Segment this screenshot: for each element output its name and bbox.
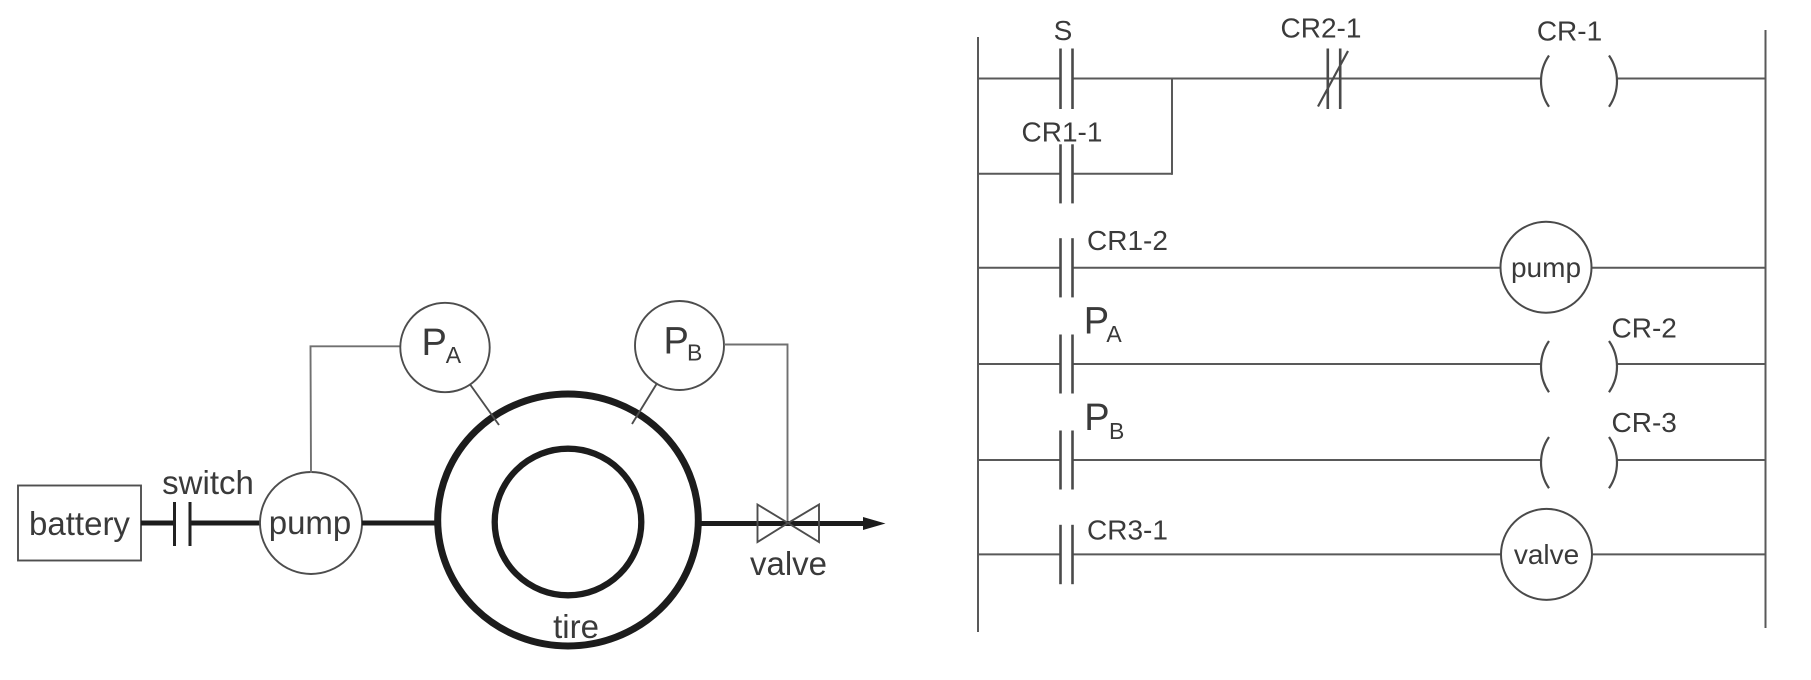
contact S (NO) [1054, 15, 1073, 109]
coil CR-2 [1541, 312, 1677, 392]
pump (motor) circle [260, 472, 362, 574]
pressure gauge PB [635, 301, 724, 390]
output valve (circle) [1501, 509, 1592, 600]
wire pump to gauge PA [311, 346, 402, 473]
output pump (circle) [1501, 222, 1592, 313]
wire switch to pump [192, 521, 262, 526]
arrowhead [863, 517, 886, 530]
contact CR2-1 (NC) [1281, 13, 1362, 110]
svg-text:P: P [1084, 301, 1109, 343]
svg-text:B: B [1109, 418, 1124, 444]
svg-text:B: B [687, 340, 702, 366]
coil CR-1 [1537, 16, 1617, 107]
svg-text:CR3-1: CR3-1 [1087, 515, 1168, 546]
valve V1 (bowtie) [750, 505, 827, 583]
svg-text:P: P [664, 321, 689, 363]
rung 3 wire segments [978, 363, 1060, 365]
tire outer circle [438, 394, 699, 646]
svg-text:A: A [446, 342, 462, 368]
svg-text:S: S [1054, 15, 1073, 46]
svg-text:valve: valve [1514, 539, 1579, 570]
svg-text:CR-1: CR-1 [1537, 16, 1602, 47]
wire PB to tire (diagonal) [632, 384, 657, 424]
contact CR3-1 (NO) [1061, 515, 1168, 585]
svg-text:CR-2: CR-2 [1612, 312, 1677, 343]
svg-text:tire: tire [553, 608, 599, 645]
svg-text:P: P [1084, 397, 1109, 439]
branch junction vertical wire [1171, 79, 1173, 175]
svg-text:switch: switch [162, 464, 254, 501]
contact PB (NO pressure) [1061, 397, 1125, 490]
wire PA to tire (diagonal) [470, 385, 499, 426]
wire pump to tire [362, 521, 440, 526]
right power rail [1765, 30, 1767, 628]
rung 2 wire segments [978, 267, 1060, 269]
branch rung wire segments [978, 173, 1060, 175]
wire battery to switch [141, 521, 173, 526]
svg-text:valve: valve [750, 545, 827, 582]
contact CR1-1 (NO, seal-in) [1022, 117, 1103, 204]
wire tire to arrow (through valve) [696, 521, 866, 526]
svg-text:P: P [422, 322, 447, 364]
rung 4 wire segments [978, 459, 1060, 461]
svg-text:CR-3: CR-3 [1612, 407, 1677, 438]
svg-text:CR2-1: CR2-1 [1281, 13, 1362, 44]
svg-text:CR1-1: CR1-1 [1022, 117, 1103, 148]
tire inner circle [495, 449, 642, 596]
svg-text:pump: pump [269, 504, 352, 541]
switch SW1 [162, 464, 254, 546]
svg-text:CR1-2: CR1-2 [1087, 225, 1168, 256]
left power rail [977, 37, 979, 632]
battery box [18, 486, 141, 561]
svg-text:pump: pump [1511, 252, 1581, 283]
rung 1 wire segments [978, 78, 1060, 80]
rung 5 wire segments [978, 553, 1060, 555]
contact CR1-2 (NO) [1061, 225, 1168, 297]
contact PA (NO pressure) [1061, 301, 1123, 394]
wire PB to valve [724, 345, 788, 524]
coil CR-3 [1541, 407, 1677, 488]
svg-text:A: A [1106, 321, 1122, 347]
svg-text:battery: battery [29, 505, 130, 542]
pressure gauge PA [400, 303, 489, 392]
